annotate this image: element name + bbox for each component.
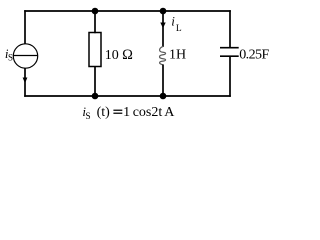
- wire inductor branch lower: [162, 65, 164, 97]
- node junction dot bottom inductor: [160, 93, 167, 100]
- svg-text:1H: 1H: [169, 48, 186, 63]
- svg-text:10: 10: [105, 48, 119, 63]
- inductor L coil: [160, 46, 166, 65]
- label source equation iS(t)=1cos2tA: [82, 104, 175, 122]
- svg-text:1: 1: [123, 105, 130, 120]
- svg-text:(t): (t): [97, 105, 111, 120]
- svg-text:i: i: [171, 14, 175, 29]
- arrowhead iS current direction: [23, 78, 28, 84]
- wire left branch lower: [24, 68, 26, 97]
- wire inductor branch upper: [162, 11, 164, 47]
- svg-text:cos2t: cos2t: [133, 105, 163, 120]
- wire left branch upper: [24, 10, 26, 44]
- current source U iS (circle with bar): [13, 44, 37, 68]
- wire capacitor branch lower: [229, 56, 231, 97]
- svg-text:S: S: [85, 112, 90, 122]
- svg-text:L: L: [176, 24, 182, 34]
- node junction dot top resistor: [92, 8, 99, 15]
- svg-text:A: A: [164, 105, 175, 120]
- label iL: [171, 14, 182, 34]
- node junction dot bottom resistor: [92, 93, 99, 100]
- wire bottom rail: [24, 95, 231, 97]
- label iS: [5, 46, 13, 63]
- wire capacitor branch upper: [229, 10, 231, 48]
- svg-text:S: S: [8, 53, 13, 63]
- svg-text:0.25F: 0.25F: [239, 48, 269, 63]
- wire top rail: [24, 10, 231, 12]
- wire resistor branch upper: [94, 11, 96, 33]
- svg-text:Ω: Ω: [122, 47, 133, 63]
- label 10 ohm: [105, 47, 133, 63]
- node junction dot top inductor: [160, 8, 167, 15]
- resistor R 10ohm: [89, 33, 101, 67]
- arrowhead iL current direction: [160, 23, 165, 29]
- capacitor C plates: [220, 48, 239, 57]
- wire resistor branch lower: [94, 66, 96, 96]
